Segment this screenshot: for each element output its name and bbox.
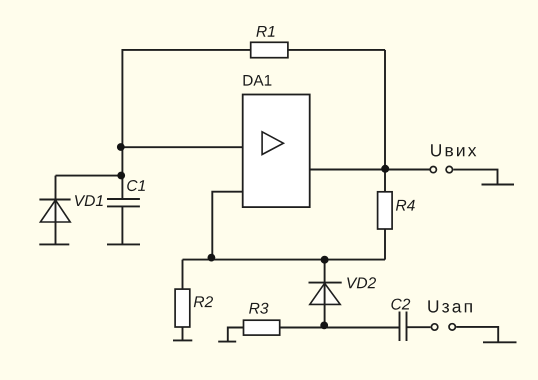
diode VD2 (309, 260, 342, 328)
terminal Uzap pin A (431, 324, 437, 330)
label R2 (194, 296, 213, 307)
wire right vertical feedback (384, 50, 386, 170)
wire op-amp inverting input (212, 192, 242, 260)
label VD1 (75, 195, 103, 206)
label R4 (396, 200, 415, 211)
diode VD1 (39, 176, 70, 245)
ground (C1) (107, 243, 140, 245)
node: VD1/C1 branch (117, 172, 125, 180)
terminal Uzap pin B (449, 324, 455, 330)
label R1 (256, 26, 274, 37)
terminal Uvyh pin B (446, 166, 452, 172)
node: VD2 on bottom rail (320, 322, 328, 330)
wire op-amp output (310, 169, 430, 171)
node: VD2 on middle rail (321, 256, 329, 264)
terminal Uvyh pin A (430, 167, 436, 173)
wire Uzap to ground (456, 327, 498, 342)
ground (R2) (173, 339, 192, 341)
wire op-amp noninverting input (122, 146, 242, 148)
label VD2 (347, 277, 376, 288)
label DA1 (244, 75, 272, 86)
wire top rail left (R1 left lead) (122, 49, 250, 51)
label C1 (127, 180, 145, 191)
wire C2 to terminal (407, 326, 431, 328)
wire R2 bottom lead (182, 327, 184, 340)
op-amp DA1 (243, 95, 310, 208)
wire left vertical (121, 49, 123, 199)
ground (Uzap) (483, 341, 517, 343)
capacitor C2 (400, 312, 407, 342)
wire top rail right (R1 right lead) (288, 49, 385, 51)
resistor R1 (251, 42, 288, 57)
capacitor C1 (107, 199, 140, 244)
wire R4 bottom lead (384, 229, 386, 260)
ground (R3 input) (218, 341, 236, 343)
ground (Uvyh) (482, 184, 515, 186)
wire bottom rail (280, 327, 400, 329)
node: inverting input on middle rail (208, 254, 216, 262)
ground (VD1) (39, 243, 69, 245)
wire R2 top lead (182, 260, 184, 290)
label R3 (249, 303, 268, 314)
label C2 (391, 299, 410, 310)
label Uvyh (431, 144, 476, 156)
wire R3 ground lead (228, 328, 244, 342)
wire middle rail (183, 259, 386, 261)
node: output/R4 (381, 165, 389, 173)
node: feedback to left rail (117, 143, 125, 151)
wire to VD1 (56, 175, 123, 177)
resistor R3 (244, 320, 280, 335)
wire R4 top lead (384, 170, 386, 192)
resistor R4 (378, 192, 393, 229)
wire Uvyh to ground (453, 170, 497, 185)
resistor R2 (175, 289, 190, 327)
label Uzap (428, 300, 472, 312)
